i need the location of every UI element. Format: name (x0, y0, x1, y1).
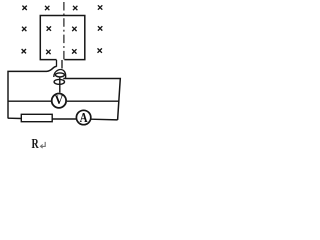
svg-text:V: V (55, 93, 64, 108)
svg-text:R: R (32, 135, 39, 151)
svg-text:A: A (80, 110, 89, 126)
